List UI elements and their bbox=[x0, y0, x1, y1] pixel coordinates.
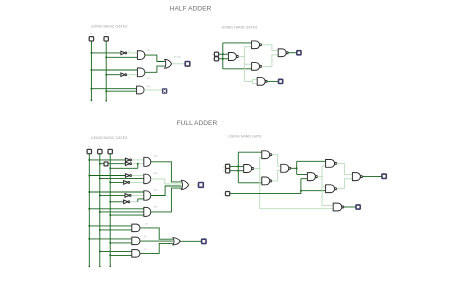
wire Cin riser bbox=[300, 179, 302, 194]
svg-text:AC: AC bbox=[144, 235, 147, 238]
svg-text:USING NAND GATE: USING NAND GATE bbox=[228, 135, 262, 139]
and gate AND1 (AB'C') bbox=[144, 157, 151, 166]
wire A to AND6 bbox=[89, 238, 132, 240]
not gate NOT2 bbox=[121, 73, 125, 77]
output pin CARRY (half adder basic) bbox=[162, 88, 167, 93]
and gate AND1 (A'B) bbox=[137, 51, 145, 60]
wire NAND9 to carry pin bbox=[344, 206, 356, 208]
nand gate NAND4 (A xor B) bbox=[281, 164, 289, 172]
output pin SUM (half adder nand) bbox=[297, 51, 301, 55]
not gate NOT1b bbox=[125, 162, 129, 166]
wire NOT3a to AND3 bbox=[131, 194, 144, 196]
not gate NOT1 bbox=[121, 51, 125, 55]
nand gate NAND2 bbox=[252, 41, 260, 49]
wire pin B to NAND1 bbox=[219, 58, 229, 60]
input pin B (full adder nand) bbox=[225, 169, 229, 173]
wire C to NOT2b bbox=[110, 181, 123, 183]
and gate AND3 (A'B'C) bbox=[144, 191, 151, 200]
svg-text:AB: AB bbox=[147, 85, 150, 88]
wire NAND5 to NAND7 top bbox=[322, 186, 326, 188]
svg-text:AB: AB bbox=[145, 222, 148, 225]
wire OR3 to sum pin bbox=[189, 184, 199, 186]
wire NOT2 to AND2 bbox=[127, 74, 138, 76]
nand gate NAND9 (carry) bbox=[333, 203, 342, 211]
wire OR1 to sum pin bbox=[172, 63, 186, 65]
and gate AND3 (AB carry) bbox=[137, 86, 144, 94]
wire NAND2 to NAND4 bbox=[262, 45, 279, 51]
and gate AND4 (ABC) bbox=[144, 207, 151, 216]
output pin SUM (full adder basic) bbox=[199, 183, 204, 188]
nand gate NAND8 (sum) bbox=[352, 173, 360, 181]
wire NAND4 output riser bbox=[291, 167, 297, 169]
svg-text:C: C bbox=[222, 194, 224, 196]
wire NAND1 output branch bbox=[238, 56, 244, 58]
wire B to NAND3 bottom bbox=[238, 182, 261, 184]
wire branch vertical A-up B-down bbox=[222, 43, 224, 69]
svg-text:AB'C': AB'C' bbox=[154, 155, 160, 158]
input pin B (half adder nand) bbox=[214, 57, 218, 61]
svg-text:HALF ADDER: HALF ADDER bbox=[170, 6, 212, 13]
svg-text:B: B bbox=[223, 171, 225, 173]
wire pin B to NAND1 bbox=[230, 170, 244, 172]
svg-text:A': A' bbox=[128, 50, 130, 53]
wire A to NAND2 top bbox=[223, 42, 252, 44]
output pin CARRY (full adder nand) bbox=[356, 205, 360, 209]
input pin A (half adder basic) bbox=[89, 37, 93, 41]
svg-text:A'B+AB': A'B+AB' bbox=[174, 56, 182, 59]
wire A to AND3 bbox=[91, 88, 136, 90]
wire C to NOT3b bbox=[110, 201, 123, 203]
wire B to AND1 bbox=[106, 56, 137, 58]
input pin A (half adder nand) bbox=[214, 52, 218, 56]
wire A to AND5 bbox=[89, 225, 132, 227]
wire AND4 to OR3 bbox=[151, 188, 182, 212]
wire C riser to AND1 bbox=[110, 167, 138, 169]
nand gate NAND3 bbox=[262, 177, 270, 185]
svg-text:A'B'C: A'B'C bbox=[154, 188, 160, 191]
wire AND2 to OR1 bbox=[145, 66, 165, 72]
nand gate NAND5 (carry) bbox=[257, 78, 265, 86]
wire B vertical bus bbox=[105, 41, 107, 101]
wire B to AND5 bbox=[100, 229, 132, 231]
wire NOT1a to AND1 bbox=[132, 159, 144, 161]
wire AND6 to OR2 bbox=[140, 240, 173, 242]
wire B to AND2 bbox=[100, 177, 144, 179]
svg-text:USING NAND GATES: USING NAND GATES bbox=[222, 25, 258, 29]
wire AND7 to OR2 bbox=[140, 243, 173, 253]
nand gate NAND6 bbox=[326, 160, 335, 168]
not gate NOT2a bbox=[125, 174, 129, 178]
wire A to AND3 bbox=[89, 191, 144, 193]
wire NAND1 branch to NAND5 bbox=[244, 80, 252, 82]
wire A to NOT2a bbox=[89, 175, 125, 177]
wire A to NAND2 top bbox=[238, 151, 261, 153]
input pin A (full adder basic) bbox=[87, 149, 91, 153]
wire C to AND7 bbox=[110, 254, 132, 256]
svg-text:A'BC': A'BC' bbox=[154, 172, 160, 175]
wire NAND5 output branch bbox=[317, 176, 322, 178]
wire NAND7 to NAND8 bbox=[337, 179, 353, 189]
input pin Cin (full adder nand) bbox=[225, 191, 229, 195]
wire branch vertical AB bbox=[237, 152, 239, 183]
wire C to AND4 bbox=[110, 214, 144, 216]
or gate OR1 (sum) bbox=[165, 59, 172, 68]
wire NAND1 output branch bbox=[254, 168, 260, 170]
wire NAND4 to sum pin bbox=[288, 52, 297, 54]
input pin C (full adder basic) bbox=[108, 149, 112, 153]
wire A to AND4 bbox=[89, 208, 144, 210]
wire A to NOT1 bbox=[91, 52, 121, 54]
not gate NOT3a bbox=[125, 194, 129, 198]
wire A vertical bus bbox=[88, 154, 90, 267]
wire B vertical bus bbox=[99, 154, 101, 267]
wire buffer to NOT1b bbox=[108, 163, 126, 165]
wire NAND3 to NAND4 bbox=[272, 170, 281, 181]
svg-text:B: B bbox=[105, 33, 107, 35]
nand gate NAND7 bbox=[326, 185, 335, 193]
wire A to NOT1a bbox=[89, 159, 125, 161]
svg-text:C: C bbox=[109, 146, 111, 148]
svg-text:FULL ADDER: FULL ADDER bbox=[177, 120, 218, 127]
wire NAND5 to NAND6 bottom bbox=[322, 165, 326, 167]
and gate AND2 (A'BC') bbox=[144, 174, 151, 183]
wire AND1 to OR1 bbox=[145, 55, 165, 61]
svg-text:A: A bbox=[223, 165, 225, 168]
wire xor to NAND5 top bbox=[297, 174, 308, 176]
wire NAND5 to NAND9 top bbox=[322, 205, 333, 207]
output pin CARRY (full adder basic) bbox=[202, 239, 206, 243]
wire A to AND2 bbox=[91, 69, 137, 71]
svg-text:A: A bbox=[90, 32, 92, 35]
not gate NOT1a bbox=[125, 158, 129, 162]
wire xor to NAND6 top bbox=[297, 160, 326, 162]
wire NAND5 to carry pin bbox=[267, 80, 278, 82]
wire NOT2b to AND2 bbox=[130, 181, 144, 183]
wire C vertical bus bbox=[109, 154, 111, 267]
input pin B (full adder basic) bbox=[98, 149, 102, 153]
wire NAND2 to NAND4 bbox=[272, 155, 281, 167]
svg-text:USING BASIC GATES: USING BASIC GATES bbox=[91, 136, 128, 140]
wire NOT3b riser to AND3 bbox=[130, 201, 138, 203]
buffer box on B line bbox=[104, 162, 108, 166]
or gate OR3 (sum of minterms) bbox=[181, 180, 188, 189]
wire Cin to NAND5 bottom bbox=[301, 178, 308, 180]
wire pin A to NAND1 bbox=[230, 165, 244, 167]
wire B to NAND3 bottom bbox=[223, 68, 252, 70]
not gate NOT2b bbox=[124, 181, 128, 185]
nand gate NAND4 (xor out) bbox=[278, 49, 286, 57]
not gate NOT3b bbox=[124, 200, 128, 204]
wire NAND3 to NAND4 bbox=[262, 55, 279, 67]
svg-text:BC: BC bbox=[144, 249, 147, 251]
wire NOT1b to AND1 bbox=[132, 163, 144, 165]
wire B to buffer box bbox=[100, 163, 104, 165]
wire AND2 to OR3 bbox=[151, 179, 182, 184]
input pin A (full adder nand) bbox=[225, 164, 229, 168]
svg-text:A'B: A'B bbox=[147, 49, 151, 52]
wire NAND1 to NAND9 (carry input) bbox=[260, 208, 334, 210]
svg-text:B': B' bbox=[128, 78, 130, 80]
wire Cin horizontal bbox=[230, 193, 301, 195]
wire AND3 to carry pin bbox=[144, 89, 162, 91]
svg-text:B: B bbox=[99, 146, 101, 148]
svg-text:ABC: ABC bbox=[154, 206, 159, 209]
wire NOT2a to AND2 bbox=[132, 175, 144, 177]
and gate AND7 (BC) bbox=[132, 250, 140, 258]
output pin SUM (full adder nand) bbox=[382, 174, 386, 178]
and gate AND2 (AB') bbox=[137, 68, 144, 77]
wire NAND8 to sum pin bbox=[362, 176, 381, 178]
wire C to AND6 bbox=[110, 242, 132, 244]
wire Cin to NAND7 bottom bbox=[301, 190, 326, 192]
nand gate NAND1 bbox=[228, 53, 236, 61]
wire B to AND7 bbox=[100, 250, 132, 252]
wire B to AND4 bbox=[100, 211, 144, 213]
wire NOT1 to AND1 bbox=[127, 52, 138, 54]
output pin CARRY (half adder nand) bbox=[279, 79, 283, 83]
nand gate NAND3 bbox=[252, 63, 260, 71]
svg-text:AB': AB' bbox=[147, 77, 151, 80]
nand gate NAND5 bbox=[307, 173, 315, 181]
and gate AND6 (AC) bbox=[132, 237, 140, 245]
svg-text:USING BASIC GATES: USING BASIC GATES bbox=[91, 25, 128, 29]
wire AND1 to OR3 bbox=[151, 162, 182, 182]
output pin SUM (half adder basic) bbox=[185, 62, 190, 67]
and gate AND5 (AB) bbox=[132, 224, 140, 232]
nand gate NAND2 bbox=[262, 151, 270, 159]
wire pin A to NAND1 bbox=[219, 53, 229, 55]
svg-text:A: A bbox=[88, 145, 90, 148]
wire B to AND3 bbox=[106, 90, 136, 92]
input pin B (half adder basic) bbox=[104, 37, 108, 41]
nand gate NAND1 bbox=[244, 165, 252, 173]
wire OR2 to carry pin bbox=[180, 240, 201, 242]
wire AND3 to OR3 bbox=[151, 186, 182, 196]
or gate OR2 (carry) bbox=[173, 238, 180, 245]
wire AND5 to OR2 bbox=[140, 228, 173, 239]
wire NAND6 to NAND8 bbox=[337, 163, 353, 174]
wire B to NOT3a bbox=[100, 194, 125, 196]
wire A vertical bus bbox=[90, 41, 92, 100]
wire B to NOT2 bbox=[106, 74, 121, 76]
